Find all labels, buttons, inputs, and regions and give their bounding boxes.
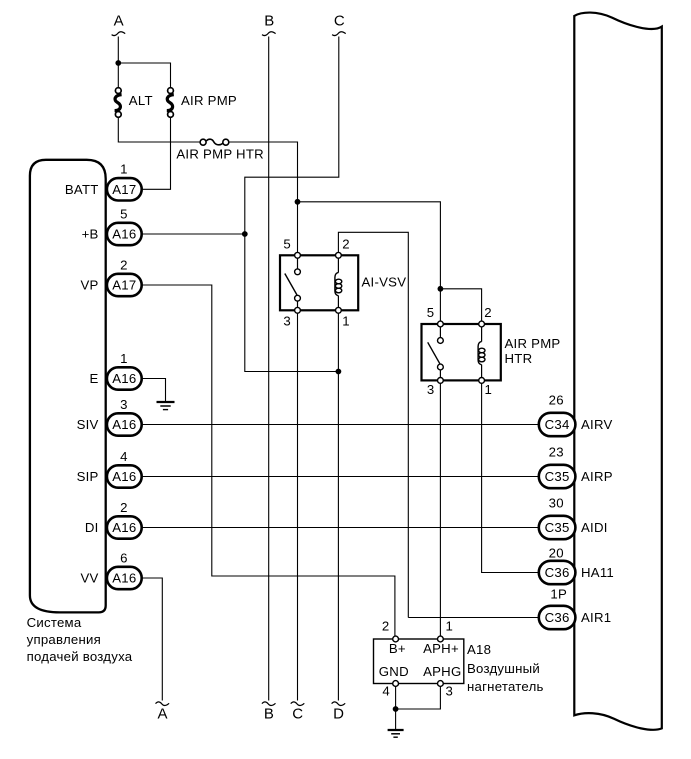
svg-text:A16: A16 <box>112 227 136 242</box>
svg-text:A16: A16 <box>112 571 136 586</box>
wire AIR PMP link to BATT terminal <box>142 117 171 189</box>
svg-text:AIR PMP: AIR PMP <box>505 336 561 351</box>
pin 2 <box>479 321 485 327</box>
wire AI-VSV coil column: riser to AIR1, and down to bottom arrow D <box>338 232 408 700</box>
ground (E) <box>157 402 175 410</box>
wire branch to AIR PMP fusible link <box>118 63 170 88</box>
svg-text:1: 1 <box>342 314 350 329</box>
svg-text:C36: C36 <box>545 565 570 580</box>
fuse AIR PMP HTR <box>176 139 264 161</box>
svg-text:SIV: SIV <box>77 417 99 432</box>
svg-text:+B: +B <box>82 227 99 242</box>
wire SIP row <box>142 476 540 478</box>
svg-text:1: 1 <box>485 382 493 397</box>
svg-text:подачей воздуха: подачей воздуха <box>27 649 133 664</box>
terminal +B A16 pin 5 <box>82 206 142 245</box>
junction at A branch <box>115 60 121 66</box>
terminal C34 AIRV pin 26 <box>539 393 613 436</box>
svg-text:B: B <box>264 13 274 30</box>
svg-text:VP: VP <box>81 278 99 293</box>
left ECU box (Система управления подачей воздуха) <box>30 160 106 613</box>
svg-text:SIP: SIP <box>77 469 99 484</box>
svg-text:C35: C35 <box>545 520 570 535</box>
svg-text:AIDI: AIDI <box>581 520 608 535</box>
svg-text:C35: C35 <box>545 469 570 484</box>
svg-text:APHG: APHG <box>423 664 461 679</box>
wire B column (top B to bottom B) <box>268 37 270 701</box>
terminal SIV A16 pin 3 <box>77 397 142 436</box>
relay AIR PMP HTR <box>422 305 561 397</box>
svg-text:A17: A17 <box>112 182 136 197</box>
svg-text:A16: A16 <box>112 417 136 432</box>
svg-text:1: 1 <box>120 351 128 366</box>
svg-text:AIRV: AIRV <box>581 417 613 432</box>
pin 1 APH+ <box>438 636 444 642</box>
node C (top connector) <box>332 13 346 36</box>
svg-text:5: 5 <box>427 305 435 320</box>
svg-text:3: 3 <box>283 314 291 329</box>
svg-text:нагнетатель: нагнетатель <box>467 679 544 694</box>
svg-text:3: 3 <box>427 382 435 397</box>
svg-text:Воздушный: Воздушный <box>467 661 540 676</box>
coil of AI-VSV <box>335 272 339 295</box>
svg-text:2: 2 <box>342 236 350 251</box>
svg-text:C34: C34 <box>545 417 570 432</box>
svg-text:1: 1 <box>120 162 128 177</box>
terminal C36 HA11 pin 20 <box>539 546 614 585</box>
svg-text:4: 4 <box>120 449 128 464</box>
svg-text:D: D <box>333 705 344 722</box>
relay AI-VSV <box>280 236 406 328</box>
node A (top connector) <box>112 13 126 36</box>
node C (bottom connector) <box>291 702 305 722</box>
terminal VP A17 pin 2 <box>81 257 142 296</box>
svg-text:управления: управления <box>27 632 101 647</box>
pin 3 APHG <box>438 681 444 687</box>
svg-text:APH+: APH+ <box>423 641 459 656</box>
terminal C35 AIDI pin 30 <box>539 496 608 540</box>
svg-text:2: 2 <box>382 618 390 633</box>
terminal BATT A17 pin 1 <box>65 162 142 201</box>
terminal VV A16 pin 6 <box>81 550 142 589</box>
svg-text:20: 20 <box>549 546 564 561</box>
pin 1 <box>336 307 342 313</box>
svg-text:Система: Система <box>27 615 82 630</box>
fusible link ALT <box>115 88 153 118</box>
wire C top down, across to +B junction column and down to D column <box>245 37 339 372</box>
terminal C36 AIR1 pin 1P <box>539 587 612 630</box>
svg-text:A16: A16 <box>112 371 136 386</box>
pin 5 <box>438 321 444 327</box>
svg-text:5: 5 <box>283 236 291 251</box>
pin stubs of AIR PMP HTR <box>439 326 441 338</box>
wire from A to ALT fusible link <box>117 37 119 89</box>
wire AIR1 row <box>408 617 539 619</box>
pin 3 <box>295 307 301 313</box>
svg-text:A16: A16 <box>112 520 136 535</box>
svg-text:AIR PMP HTR: AIR PMP HTR <box>176 146 264 161</box>
terminal SIP A16 pin 4 <box>77 449 142 488</box>
node B (bottom connector) <box>262 702 276 722</box>
svg-text:2: 2 <box>120 257 128 272</box>
svg-text:1P: 1P <box>550 587 567 602</box>
junction at relay feed <box>438 286 444 292</box>
svg-text:ALT: ALT <box>129 93 153 108</box>
engine ECU box (right) <box>574 13 662 730</box>
wire branch to AIR PMP HTR relay (pin 5 / APH+ column) <box>298 202 441 636</box>
wire APHG to ground junction <box>396 686 441 709</box>
svg-text:HA11: HA11 <box>581 565 614 580</box>
switch of AI-VSV <box>285 274 297 296</box>
svg-text:C36: C36 <box>545 610 570 625</box>
svg-text:26: 26 <box>549 393 564 408</box>
svg-text:C: C <box>334 13 345 30</box>
svg-text:6: 6 <box>120 550 128 565</box>
svg-text:23: 23 <box>549 445 564 460</box>
svg-text:GND: GND <box>379 664 409 679</box>
pin 2 B+ <box>393 636 399 642</box>
switch of AIR PMP HTR <box>428 342 440 364</box>
svg-text:B: B <box>264 705 274 722</box>
svg-text:AIRP: AIRP <box>581 469 613 484</box>
svg-text:2: 2 <box>484 305 492 320</box>
svg-text:B+: B+ <box>389 641 406 656</box>
pin 4 GND <box>393 681 399 687</box>
junction at ground <box>393 706 399 712</box>
pin 5 <box>295 252 301 258</box>
air pump unit A18 <box>374 618 544 698</box>
terminal C35 AIRP pin 23 <box>539 445 613 488</box>
svg-text:4: 4 <box>382 684 390 699</box>
svg-text:A16: A16 <box>112 469 136 484</box>
svg-text:3: 3 <box>120 397 128 412</box>
node D (bottom connector) <box>332 702 346 722</box>
ground (A18) <box>388 730 404 737</box>
svg-text:AI-VSV: AI-VSV <box>362 275 407 290</box>
svg-text:DI: DI <box>85 520 99 535</box>
pin 1 <box>479 378 485 384</box>
svg-text:5: 5 <box>120 206 128 221</box>
svg-text:A: A <box>157 705 167 722</box>
wire fuse to AI-VSV pin 5 column (continues to bottom arrow C) <box>229 142 298 701</box>
svg-text:C: C <box>292 705 303 722</box>
pin 3 <box>438 378 444 384</box>
svg-text:A: A <box>114 13 124 30</box>
wire +B row <box>142 233 245 235</box>
terminal E A16 pin 1 <box>90 351 142 390</box>
wire branch to relay pin 2 coil column <box>440 289 481 573</box>
svg-text:1: 1 <box>446 618 454 633</box>
svg-text:HTR: HTR <box>505 351 533 366</box>
junction at D column <box>336 369 342 375</box>
junction at +B <box>242 231 248 237</box>
wire HA11 row <box>482 572 540 574</box>
fusible link AIR PMP <box>167 88 237 118</box>
wire VV to bottom arrow A <box>142 578 163 701</box>
terminal DI A16 pin 2 <box>85 500 142 539</box>
wire SIV row <box>142 424 540 426</box>
wire DI row <box>142 527 540 529</box>
svg-text:AIR1: AIR1 <box>581 610 611 625</box>
pin stubs of AI-VSV <box>297 258 299 270</box>
svg-text:E: E <box>90 371 99 386</box>
pin 2 <box>336 252 342 258</box>
wire GND pin to ground <box>395 686 397 729</box>
svg-text:AIR PMP: AIR PMP <box>181 93 237 108</box>
svg-text:3: 3 <box>446 684 454 699</box>
node B (top connector) <box>262 13 276 36</box>
svg-text:A17: A17 <box>112 278 136 293</box>
junction on fuse column <box>295 199 301 205</box>
wire VP to A18 B+ <box>142 285 395 636</box>
svg-text:30: 30 <box>549 496 564 511</box>
coil of AIR PMP HTR <box>478 341 482 364</box>
svg-text:VV: VV <box>81 571 99 586</box>
svg-text:A18: A18 <box>467 642 491 657</box>
node A (bottom connector) <box>156 702 170 722</box>
wire ALT to fuse <box>118 117 200 142</box>
wire E to ground <box>142 379 166 402</box>
svg-text:2: 2 <box>120 500 128 515</box>
svg-text:BATT: BATT <box>65 182 99 197</box>
